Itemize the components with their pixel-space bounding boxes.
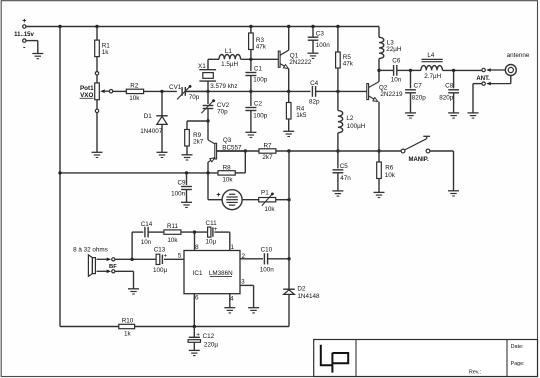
wire BF top to C13 (115, 258, 156, 260)
capacitor C12 220u (188, 327, 218, 351)
resistor R1 1k (95, 27, 111, 57)
capacitor C9 100n (171, 173, 192, 202)
node L3 bottom Q2 collector (377, 69, 380, 72)
svg-text:C9: C9 (177, 180, 186, 187)
ground (C5) (332, 191, 343, 196)
svg-text:8: 8 (195, 244, 199, 251)
svg-text:10k: 10k (222, 177, 233, 184)
svg-text:1k5: 1k5 (296, 112, 307, 119)
svg-text:R2: R2 (130, 82, 139, 89)
ground (R4) (283, 131, 294, 136)
title block frame (314, 340, 538, 377)
node Q1 emitter R4 (287, 90, 290, 93)
svg-text:Page:: Page: (511, 361, 525, 367)
wire P1 to right line (276, 199, 289, 201)
svg-text:1k: 1k (124, 331, 132, 338)
wire connector shield down (510, 76, 512, 84)
arrow antenna shield (486, 82, 511, 86)
node pin6 C12 (193, 325, 196, 328)
svg-text:C7: C7 (414, 83, 423, 90)
node rail C3 (311, 25, 314, 28)
inductor L4 2.7uH with core (411, 52, 443, 80)
svg-text:C2: C2 (254, 101, 263, 108)
svg-text:L2: L2 (346, 115, 354, 122)
wire mic drop (208, 173, 222, 200)
svg-text:2k7: 2k7 (193, 138, 204, 145)
svg-text:820p: 820p (439, 95, 454, 102)
wire pin 2 to C10 (240, 258, 263, 260)
ground (C12) (189, 350, 200, 355)
wire R7 node down to D2 (288, 151, 290, 289)
svg-text:C1: C1 (254, 66, 263, 73)
node C8 top (452, 69, 455, 72)
wire base node down to C1 (250, 59, 252, 71)
wire C11 to pin 1 (229, 232, 231, 250)
node C1 C2 midpoint (249, 90, 252, 93)
ground (C9) (181, 202, 192, 207)
node Q2 emitter R6 (377, 149, 380, 152)
svg-text:10k: 10k (385, 172, 396, 179)
wire Q1 emitter down (288, 69, 290, 92)
svg-text:47k: 47k (343, 60, 354, 67)
node pin8 R11 C11 (193, 230, 196, 233)
capacitor C8 820p (439, 70, 459, 113)
label BF (109, 264, 117, 270)
svg-text:8 à 32 ohms: 8 à 32 ohms (73, 246, 108, 253)
ground (BF) (128, 289, 139, 294)
potentiometer Pot1 VXO (80, 72, 113, 113)
resistor R5 47k (336, 27, 354, 92)
svg-text:R8: R8 (223, 164, 232, 171)
ground (C3) (308, 53, 319, 58)
svg-text:BF: BF (109, 264, 117, 270)
arrow antenna hot (486, 68, 505, 72)
svg-text:2k7: 2k7 (262, 154, 273, 161)
node R8 drop (244, 149, 247, 152)
svg-text:10k: 10k (129, 95, 140, 102)
wire C14 branch up (132, 232, 143, 259)
node L1 R3 junction (249, 58, 252, 61)
resistor R4 1k5 (286, 91, 306, 131)
antenna connector (505, 65, 516, 76)
ground (C2) (245, 132, 256, 137)
svg-text:1: 1 (231, 244, 235, 251)
switch MANIP morse key (401, 136, 430, 163)
wire Pot1 to ground (96, 113, 98, 153)
ground (antenna) (468, 113, 479, 118)
svg-text:P1: P1 (261, 189, 269, 196)
svg-text:C12: C12 (203, 333, 215, 340)
svg-text:5: 5 (178, 253, 182, 260)
svg-text:47n: 47n (340, 175, 351, 182)
svg-text:L1: L1 (225, 48, 233, 55)
svg-text:100n: 100n (260, 266, 275, 273)
label ANT. (476, 76, 490, 82)
ground (D1) (157, 152, 168, 157)
logo LP (321, 345, 348, 373)
svg-text:1N4007: 1N4007 (140, 128, 163, 135)
svg-text:D2: D2 (297, 286, 306, 293)
svg-text:CV1: CV1 (169, 84, 182, 91)
svg-text:820p: 820p (412, 95, 427, 102)
wire L1 to Q1 base (241, 58, 279, 60)
svg-text:3: 3 (241, 279, 245, 286)
svg-text:C6: C6 (392, 57, 401, 64)
capacitor C7 820p (405, 70, 426, 113)
node rail R1 (95, 25, 98, 28)
svg-text:+: + (214, 226, 218, 233)
svg-text:L4: L4 (427, 52, 435, 59)
wire Q3 base to keying node (217, 150, 246, 152)
wire C13 to pin 5 (164, 258, 184, 260)
ground (MANIP) (448, 191, 459, 196)
resistor R9 2k7 (185, 121, 208, 155)
svg-text:D1: D1 (144, 113, 153, 120)
node C7 top (409, 69, 412, 72)
svg-text:X1: X1 (198, 63, 206, 70)
svg-text:R10: R10 (122, 318, 134, 325)
variable capacitor CV2 70p (201, 91, 229, 121)
wire CV1 to crystal node (185, 90, 208, 92)
node rail-left vertical (58, 25, 61, 28)
svg-text:R11: R11 (167, 223, 179, 230)
ground (C8) (448, 113, 459, 118)
transistor Q2 2N2219 (367, 70, 403, 101)
svg-text:100µ: 100µ (153, 267, 168, 274)
diode D2 1N4148 (283, 286, 320, 327)
svg-text:82p: 82p (309, 98, 320, 105)
node BF C14 branch (130, 258, 133, 261)
ground (C7) (405, 113, 416, 118)
resistor R3 47k (249, 27, 267, 60)
capacitor C3 100n (308, 27, 331, 54)
resistor R8 10k (218, 164, 235, 183)
terminal ANT shield (482, 82, 485, 85)
svg-text:IC1: IC1 (193, 270, 203, 277)
svg-text:100µH: 100µH (347, 123, 366, 130)
svg-text:11..15v: 11..15v (14, 32, 34, 38)
svg-text:C5: C5 (340, 163, 349, 170)
capacitor C13 100u (153, 246, 168, 274)
transistor Q3 BC557 (208, 121, 242, 162)
svg-text:ANT.: ANT. (476, 76, 490, 82)
speaker BF (88, 255, 111, 277)
wire pin 3 to ground (240, 285, 254, 307)
resistor R2 10k (113, 82, 144, 102)
ground (R9) (182, 155, 193, 160)
node R9 branch (206, 119, 209, 122)
node crystal bottom (206, 90, 209, 93)
capacitor C4 82p (309, 80, 320, 105)
svg-text:2N2219: 2N2219 (380, 91, 403, 98)
svg-text:+: + (22, 18, 26, 25)
svg-text:220µ: 220µ (204, 341, 219, 348)
node P1 right (287, 198, 290, 201)
svg-text:C14: C14 (141, 221, 153, 228)
svg-text:1.5µH: 1.5µH (221, 61, 238, 68)
microphone (216, 190, 242, 210)
svg-text:VXO: VXO (80, 92, 93, 99)
svg-text:LM386N: LM386N (209, 270, 233, 277)
resistor R6 10k (377, 151, 396, 192)
ground (supply) (32, 54, 43, 59)
svg-text:10k: 10k (264, 206, 275, 213)
label Date (511, 344, 524, 350)
capacitor C14 10n (141, 221, 164, 246)
wire left vertical +V feed (59, 27, 61, 327)
svg-text:3.579 khz: 3.579 khz (210, 83, 237, 90)
node C9 top (185, 171, 188, 174)
label 8 a 32 ohms (73, 246, 108, 253)
svg-text:100n: 100n (171, 190, 186, 197)
svg-text:Date:: Date: (511, 344, 524, 350)
resistor R7 2k7 (259, 143, 276, 162)
capacitor C6 10n (379, 57, 411, 83)
wire shield to ground (473, 84, 482, 113)
svg-text:10k: 10k (167, 237, 178, 244)
variable capacitor CV1 70p (169, 84, 200, 101)
terminal BF top (112, 258, 115, 261)
svg-text:70p: 70p (217, 108, 228, 115)
op-amp IC1 LM386N (178, 244, 246, 303)
label antenne (507, 52, 530, 59)
wire R2 to node D1 (144, 90, 177, 92)
wire L4 to antenna node (442, 69, 482, 71)
svg-text:R6: R6 (385, 165, 394, 172)
svg-text:1k: 1k (102, 49, 110, 56)
node rail Q1 collector (287, 25, 290, 28)
svg-text:6: 6 (195, 295, 199, 302)
svg-text:2.7µH: 2.7µH (424, 73, 441, 80)
ground (pin 3) (248, 308, 259, 313)
wire bottom rail (60, 326, 289, 328)
svg-text:Rev.:: Rev.: (469, 370, 481, 376)
wire top +V rail (26, 26, 379, 28)
svg-text:C3: C3 (316, 31, 325, 38)
trimmer P1 10k (259, 189, 276, 213)
node bias from +V (58, 171, 61, 174)
diode D1 1N4007 (140, 91, 168, 152)
svg-text:100p: 100p (253, 112, 268, 119)
wire Q2 emitter down (378, 102, 380, 151)
svg-text:C4: C4 (310, 80, 319, 87)
node audio out C10 (287, 257, 290, 260)
wire mic to P1 (242, 199, 259, 201)
inductor L2 100uH (338, 91, 366, 151)
wire minus terminal to ground (26, 41, 38, 54)
svg-text:10n: 10n (141, 239, 152, 246)
wire keying line (217, 150, 402, 152)
node P1 line drop (287, 149, 290, 152)
wire R1 to Pot1 (96, 57, 98, 72)
node rail R3 (249, 25, 252, 28)
terminal BF bottom (112, 270, 115, 273)
node D1 top (160, 90, 163, 93)
wire mic bias line (60, 151, 245, 173)
svg-text:C10: C10 (261, 246, 273, 253)
svg-text:1N4148: 1N4148 (297, 293, 320, 300)
inductor L1 1.5uH (219, 48, 241, 68)
capacitor C1 100p (245, 66, 267, 92)
capacitor C11 10u (205, 220, 229, 245)
terminal ANT hot (482, 68, 485, 71)
resistor R10 1k (119, 318, 135, 338)
svg-text:4: 4 (230, 295, 234, 302)
node R5 bottom (336, 90, 339, 93)
svg-text:47k: 47k (256, 44, 267, 51)
wire BF bottom to ground (115, 271, 134, 289)
resistor R11 10k (164, 223, 208, 244)
wire pin 6 down (193, 294, 195, 327)
svg-text:10µ: 10µ (205, 238, 216, 245)
wire pin 8 up (194, 232, 196, 250)
svg-text:100n: 100n (316, 42, 331, 49)
svg-text:Q3: Q3 (223, 137, 232, 144)
label Page (511, 361, 525, 367)
svg-text:2N2222: 2N2222 (289, 59, 312, 66)
svg-text:+: + (216, 192, 220, 199)
ground (pin 4) (224, 308, 235, 313)
svg-text:10n: 10n (391, 77, 402, 84)
wire crystal top to L1 (208, 58, 219, 60)
ground (Pot1) (92, 152, 103, 157)
wire C4 to Q2 base (316, 90, 367, 92)
terminal + (supply positive) (22, 18, 26, 28)
capacitor C5 47n (333, 151, 352, 191)
svg-text:antenne: antenne (507, 52, 530, 59)
svg-text:C8: C8 (445, 83, 454, 90)
capacitor C2 100p (245, 91, 267, 132)
capacitor C10 100n (260, 246, 289, 273)
wire oscillator emitter line (185, 90, 310, 92)
svg-text:R7: R7 (263, 143, 272, 150)
ground (R6) (374, 192, 385, 197)
svg-text:100p: 100p (253, 77, 268, 84)
crystal X1 3.579 khz (198, 59, 238, 91)
transistor Q1 2N2222 (278, 27, 312, 69)
wire pin 4 to ground (229, 294, 231, 308)
node L2 bottom C5 (336, 149, 339, 152)
svg-text:70p: 70p (189, 94, 200, 101)
wire Q3 emitter down (207, 162, 209, 173)
node rail R5 (336, 25, 339, 28)
node Q3 emitter mic (206, 171, 209, 174)
label Rev (469, 370, 481, 376)
wire MANIP to ground (430, 151, 454, 191)
svg-text:MANIP.: MANIP. (408, 157, 429, 163)
svg-text:+: + (196, 332, 200, 339)
label 11..15v (14, 32, 34, 38)
svg-text:22µH: 22µH (386, 46, 402, 53)
inductor L3 22uH (379, 27, 402, 71)
terminal - (supply negative) (23, 39, 26, 52)
